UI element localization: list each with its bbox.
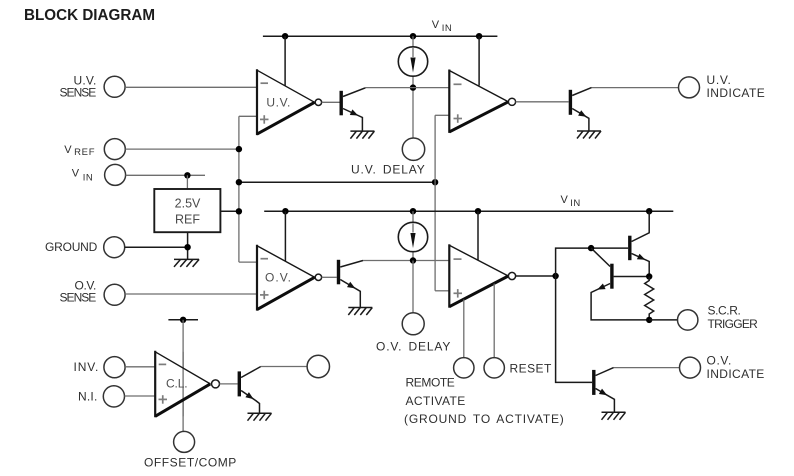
block 2.5V REF regulator bbox=[154, 189, 220, 232]
pin O.V. SENSE bbox=[60, 278, 126, 305]
junction dot lower rail at current source I2 bbox=[410, 208, 416, 214]
ground (under Q3) bbox=[348, 308, 372, 316]
wire ref column to U2 plus input bbox=[435, 115, 449, 290]
wire V_IN top rail bbox=[263, 35, 498, 37]
svg-text:RESET: RESET bbox=[510, 362, 552, 376]
current source I2 (O.V. delay charge) bbox=[398, 211, 427, 260]
svg-text:SENSE: SENSE bbox=[60, 290, 97, 304]
pin S.C.R. TRIGGER bbox=[678, 303, 759, 331]
svg-text:U.V.: U.V. bbox=[266, 95, 290, 109]
svg-text:2.5V: 2.5V bbox=[175, 197, 201, 211]
svg-text:INDICATE: INDICATE bbox=[707, 86, 766, 100]
wire ref column to U4 plus input bbox=[435, 290, 449, 292]
wire O.V. delay node vertical to delay pin bbox=[412, 261, 414, 313]
wire U.V. delay node vertical to delay pin bbox=[412, 88, 414, 138]
wire V_IN lower rail bbox=[264, 210, 673, 212]
junction dot on rail at U.V. comparator supply bbox=[282, 33, 288, 39]
op-amp U4 (O.V. output comparator) bbox=[449, 244, 515, 307]
svg-text:N.I.: N.I. bbox=[78, 390, 98, 404]
pin V_REF bbox=[64, 139, 125, 160]
wire output node up to Q4 base bbox=[556, 248, 629, 276]
svg-text:V: V bbox=[64, 144, 72, 156]
svg-text:INV.: INV. bbox=[74, 360, 99, 374]
junction dot ref link / comparator plus column bbox=[432, 179, 438, 185]
svg-text:TRIGGER: TRIGGER bbox=[708, 317, 759, 331]
wire bus to O.V. comparator minus input bbox=[239, 261, 257, 263]
svg-text:O.V.: O.V. bbox=[265, 270, 291, 284]
ground (under Q7) bbox=[248, 413, 272, 421]
wire Q3 collector / O.V. delay node to U4 minus input bbox=[363, 260, 449, 262]
transistor Q2 (U.V. indicate driver) bbox=[516, 88, 592, 131]
svg-text:C.L.: C.L. bbox=[166, 376, 188, 390]
svg-text:REF: REF bbox=[74, 147, 95, 158]
junction dot C.L. supply stub bbox=[180, 317, 186, 323]
transistor Q1 (U.V. comparator output) bbox=[322, 88, 365, 132]
pin C.L. output (unlabeled) bbox=[307, 355, 329, 377]
junction dot U4 output node bbox=[552, 273, 558, 279]
wire 2.5V REF output to bus bbox=[220, 210, 239, 212]
wire U4 output bbox=[516, 275, 556, 277]
pin O.V. INDICATE bbox=[680, 353, 765, 381]
wire C.L. supply stub bbox=[168, 319, 198, 321]
svg-text:REMOTE: REMOTE bbox=[406, 376, 456, 390]
svg-text:V: V bbox=[561, 194, 569, 206]
wire V_REF bus vertical bbox=[238, 116, 240, 262]
wire Q1 collector to U2 minus input (U.V. delay node) bbox=[365, 87, 449, 89]
transistor Q6 (O.V. indicate driver) bbox=[594, 368, 615, 413]
pin RESET bbox=[484, 358, 552, 378]
wire U.V. comparator supply drop bbox=[284, 36, 286, 86]
svg-text:IN: IN bbox=[442, 23, 453, 34]
junction dot U.V. delay node bbox=[410, 84, 416, 90]
pin REMOTE ACTIVATE bbox=[454, 358, 474, 378]
junction dot lower rail at comparator U4 supply bbox=[475, 208, 481, 214]
wire comparator U4 supply drop bbox=[477, 211, 479, 260]
pin U.V. DELAY bbox=[402, 138, 424, 160]
resistor R1 bbox=[645, 277, 654, 320]
pin U.V. INDICATE bbox=[679, 73, 766, 100]
ground (under Q6) bbox=[602, 412, 626, 420]
svg-text:REF: REF bbox=[175, 212, 200, 226]
ground (reference ground symbol) bbox=[174, 259, 199, 267]
wire REMOTE ACTIVATE drop bbox=[463, 300, 465, 358]
junction dot ref output / bus bbox=[236, 208, 242, 214]
junction dot Q4 base / Q5 collector bbox=[588, 245, 594, 251]
junction dot ground wire bbox=[184, 244, 190, 250]
wire U.V. SENSE to U.V. comparator minus input bbox=[125, 86, 257, 88]
pin U.V. SENSE bbox=[60, 74, 126, 100]
wire GROUND pin to reference ground bbox=[125, 246, 188, 248]
op-amp U1 U.V. comparator bbox=[257, 69, 322, 135]
pin OFFSET/COMP bbox=[144, 431, 237, 469]
svg-text:(GROUND TO ACTIVATE): (GROUND TO ACTIVATE) bbox=[404, 412, 564, 426]
junction dot bus / ref link bbox=[236, 179, 242, 185]
pin GROUND bbox=[45, 237, 125, 258]
transistor Q5 (S.C.R. trigger darlington lower, mirrored) bbox=[591, 248, 649, 320]
svg-text:V: V bbox=[432, 19, 440, 31]
junction dot Q4 emitter / Q5 base / resistor top bbox=[646, 273, 652, 279]
junction dot V_IN to 2.5V REF bbox=[184, 172, 190, 178]
junction dot lower rail at Q4 collector bbox=[646, 208, 652, 214]
pin O.V. DELAY bbox=[402, 313, 424, 335]
current source I1 (U.V. delay charge) bbox=[398, 36, 427, 87]
node V_IN label (top) bbox=[432, 19, 453, 34]
junction dot on rail at current source I1 bbox=[410, 33, 416, 39]
op-amp U2 (U.V. output comparator) bbox=[449, 70, 515, 133]
junction dot O.V. delay node bbox=[410, 257, 416, 263]
wire O.V. SENSE to O.V. comparator plus input bbox=[125, 293, 257, 295]
wire S.C.R. trigger node to pin bbox=[649, 319, 677, 321]
wire RESET drop bbox=[493, 284, 495, 358]
svg-text:U.V. DELAY: U.V. DELAY bbox=[351, 162, 425, 176]
junction dot V_REF / bus bbox=[236, 146, 242, 152]
svg-text:OFFSET/COMP: OFFSET/COMP bbox=[144, 455, 237, 469]
svg-text:O.V. DELAY: O.V. DELAY bbox=[376, 340, 451, 354]
wire C.L. supply / offset-comp vertical bbox=[182, 320, 184, 432]
svg-text:SENSE: SENSE bbox=[60, 86, 97, 100]
svg-text:BLOCK DIAGRAM: BLOCK DIAGRAM bbox=[24, 7, 155, 24]
wire output node down to Q6 base bbox=[556, 276, 593, 382]
ground (under Q2) bbox=[577, 131, 601, 139]
wire V_IN pin stub bbox=[126, 174, 205, 176]
svg-text:S.C.R.: S.C.R. bbox=[708, 303, 742, 317]
junction dot resistor bottom / S.C.R. trigger node bbox=[646, 317, 652, 323]
pin V_IN bbox=[72, 164, 126, 185]
wire Q7 collector to C.L. output pin bbox=[261, 366, 307, 368]
transistor Q4 (S.C.R. trigger darlington top) bbox=[630, 211, 649, 276]
wire V_IN down to 2.5V REF box bbox=[186, 175, 188, 189]
op-amp U3 O.V. comparator bbox=[257, 245, 322, 311]
wire N.I. to C.L. plus input bbox=[125, 395, 156, 397]
pin INV. bbox=[74, 357, 126, 378]
transistor Q3 (O.V. comparator output) bbox=[322, 260, 363, 308]
wire 2.5V REF link to bus (node at y=182) bbox=[239, 181, 435, 183]
svg-text:IN: IN bbox=[83, 173, 94, 184]
svg-text:ACTIVATE: ACTIVATE bbox=[406, 394, 466, 408]
wire U.V. comparator plus input bbox=[239, 115, 257, 117]
op-amp U5 C.L. comparator bbox=[155, 351, 219, 418]
svg-text:GROUND: GROUND bbox=[45, 240, 98, 254]
junction dot lower rail at O.V. comparator supply bbox=[282, 208, 288, 214]
svg-text:INDICATE: INDICATE bbox=[707, 367, 765, 381]
pin N.I. bbox=[78, 386, 125, 407]
ground (under Q1) bbox=[350, 131, 374, 139]
svg-text:U.V.: U.V. bbox=[707, 73, 732, 87]
node REMOTE ACTIVATE label bbox=[404, 376, 564, 427]
node V_IN label (lower rail) bbox=[561, 194, 581, 209]
svg-text:V: V bbox=[72, 168, 80, 180]
svg-text:IN: IN bbox=[570, 198, 581, 209]
wire 2.5V REF box bottom to ground bbox=[187, 232, 189, 259]
wire INV. to C.L. minus input bbox=[125, 366, 155, 368]
wire V_REF to bus bbox=[125, 148, 239, 150]
transistor Q7 (current limit output) bbox=[220, 367, 261, 414]
wire O.V. comparator supply drop bbox=[284, 211, 286, 261]
wire comparator U2 supply drop bbox=[478, 36, 480, 85]
wire Q2 collector to U.V. INDICATE bbox=[592, 87, 679, 89]
wire Q6 collector to O.V. INDICATE bbox=[614, 367, 680, 369]
svg-text:O.V.: O.V. bbox=[707, 353, 732, 367]
junction dot on rail at comparator U2 supply bbox=[476, 33, 482, 39]
